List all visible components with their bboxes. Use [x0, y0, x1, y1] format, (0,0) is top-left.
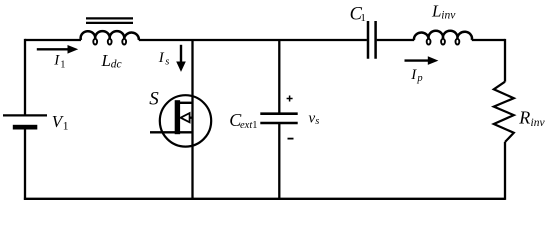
svg-text:I: I — [158, 50, 165, 66]
resistor Rinv — [494, 82, 514, 142]
svg-text:s: s — [165, 56, 169, 67]
svg-text:p: p — [416, 73, 422, 84]
battery V1 — [3, 115, 47, 129]
svg-text:I: I — [410, 67, 417, 83]
label vs — [309, 110, 320, 127]
svg-text:dc: dc — [111, 59, 122, 71]
label Is — [158, 50, 170, 67]
label C1 — [350, 5, 366, 25]
label I1 — [53, 53, 65, 71]
svg-text:1: 1 — [252, 120, 257, 131]
wire left vertical upper — [24, 39, 26, 115]
minus sign — [288, 138, 294, 140]
wire top-left horizontal — [25, 39, 81, 41]
label Ip — [410, 67, 422, 84]
svg-text:inv: inv — [441, 9, 456, 21]
wire switch branch vertical — [191, 40, 193, 199]
transistor S (MOSFET) circle — [160, 95, 211, 146]
label Rinv — [518, 108, 545, 129]
plus sign — [287, 96, 293, 102]
svg-text:L: L — [431, 2, 441, 21]
wire top far right — [472, 39, 505, 41]
wire left vertical lower — [24, 130, 26, 200]
wire Cext1 branch lower — [278, 124, 280, 199]
transistor S gate bar — [175, 100, 180, 134]
capacitor Cext1 — [260, 114, 297, 123]
svg-text:R: R — [518, 108, 530, 128]
inductor Ldc coil — [81, 31, 139, 44]
label Ldc — [101, 51, 122, 71]
label Cext1 — [229, 110, 257, 131]
wire top right of C1 — [377, 39, 415, 41]
current arrow I1 — [37, 45, 78, 54]
svg-text:L: L — [101, 51, 111, 70]
transistor S source stub and gate lead — [150, 131, 193, 133]
wire bottom horizontal — [24, 198, 505, 200]
svg-text:S: S — [149, 89, 159, 110]
wire right vertical upper — [504, 39, 506, 82]
svg-text:I: I — [53, 53, 60, 69]
label V1 — [52, 112, 69, 133]
svg-text:1: 1 — [63, 121, 69, 133]
wire right vertical lower — [504, 142, 506, 200]
wire top middle — [139, 39, 367, 41]
label Linv — [431, 2, 456, 22]
svg-text:1: 1 — [60, 59, 65, 70]
svg-text:s: s — [315, 116, 319, 127]
transistor S body stub with arrow — [181, 113, 193, 122]
inductor Ldc core bars — [86, 18, 133, 23]
svg-text:inv: inv — [531, 117, 546, 129]
inductor Linv coil — [414, 31, 472, 45]
wire Cext1 branch upper — [278, 40, 280, 114]
transistor S drain stub — [180, 102, 193, 104]
current arrow Is — [176, 45, 186, 72]
svg-text:1: 1 — [360, 12, 366, 24]
current arrow Ip — [405, 56, 439, 65]
capacitor C1 — [368, 21, 376, 59]
